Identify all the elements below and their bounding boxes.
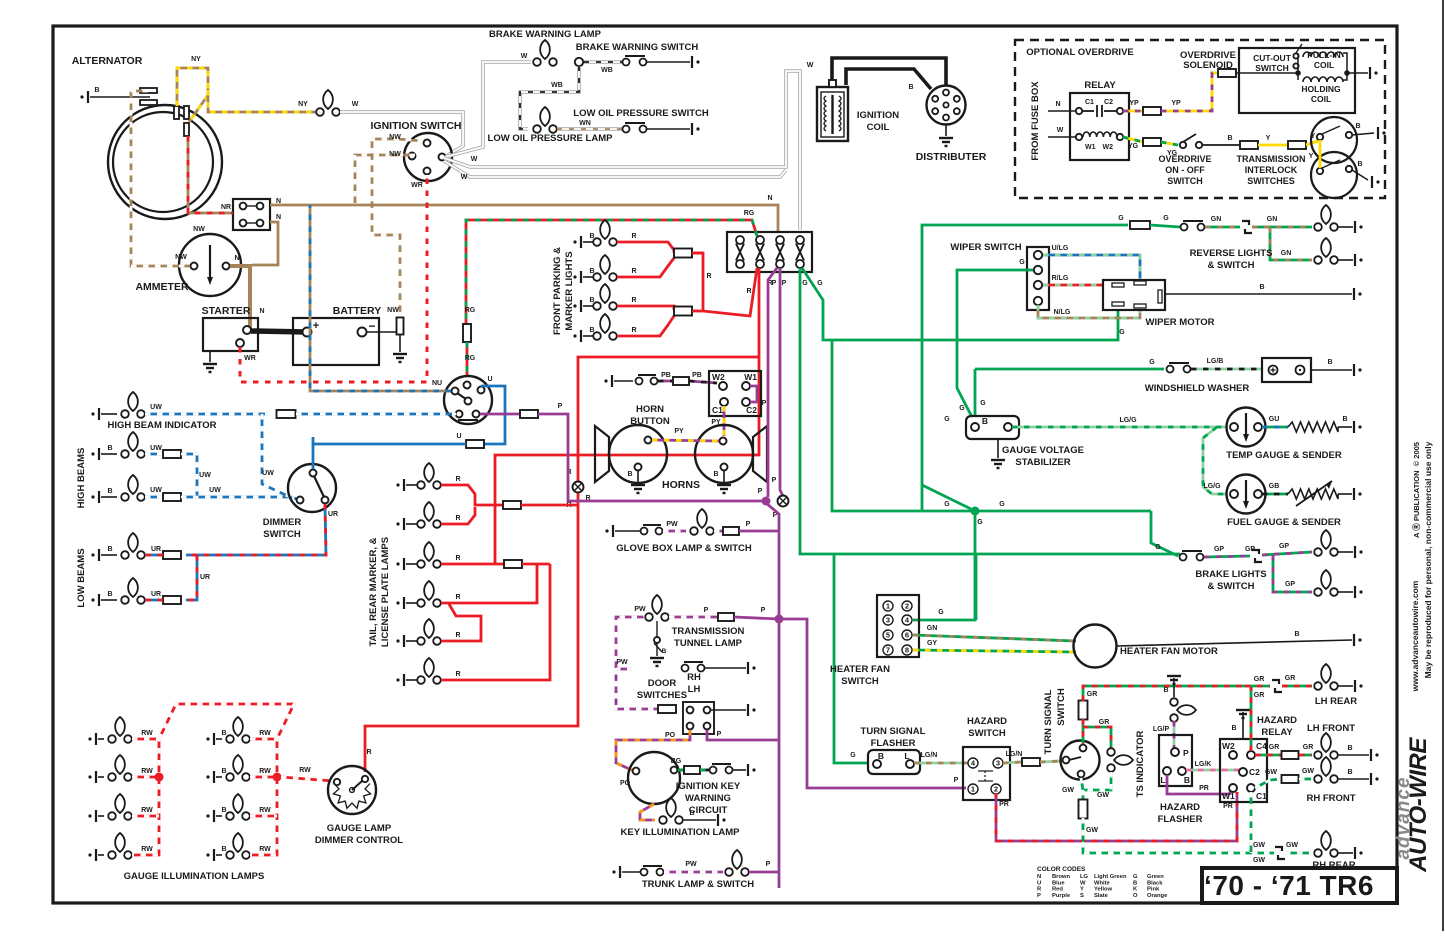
wire RW col2 stub3 <box>250 815 277 818</box>
svg-text:B: B <box>982 416 988 426</box>
svg-text:RG: RG <box>744 210 755 217</box>
wire GR fuse to lh front lamp <box>1299 754 1312 757</box>
wire GU temp gauge out <box>1262 426 1288 429</box>
wire Y connector to connector <box>1258 144 1288 147</box>
svg-text:Orange: Orange <box>1147 893 1168 899</box>
svg-text:NW: NW <box>389 134 401 141</box>
svg-text:DISTRIBUTER: DISTRIBUTER <box>916 151 987 163</box>
ground brake warning switch <box>692 56 700 68</box>
svg-text:LH REAR: LH REAR <box>1315 696 1357 707</box>
wire lh rear ground lead <box>1338 685 1353 687</box>
svg-text:NW: NW <box>389 151 401 158</box>
svg-text:UR: UR <box>328 511 338 518</box>
page right edge line <box>1442 0 1444 931</box>
svg-text:2: 2 <box>905 602 909 611</box>
switch brake warning <box>623 56 647 66</box>
lamp hazard indicator <box>1170 698 1196 722</box>
starter body <box>203 318 258 351</box>
svg-text:STABILIZER: STABILIZER <box>1015 457 1070 468</box>
lamp reverse 1 <box>1314 205 1338 231</box>
svg-text:R: R <box>631 233 636 240</box>
svg-text:CIRCUIT: CIRCUIT <box>689 805 728 816</box>
svg-text:G: G <box>999 501 1005 508</box>
svg-text:RW: RW <box>259 730 271 737</box>
wire GW relay C1 to rh front <box>1255 779 1281 788</box>
wire G to reverse lights <box>922 225 1128 511</box>
svg-text:SWITCH: SWITCH <box>968 728 1006 739</box>
wire B high beam 1 <box>101 453 117 455</box>
ground gauge lamp c2-1 <box>206 733 214 745</box>
ground high beam 1 <box>91 448 99 460</box>
svg-text:NY: NY <box>298 101 308 108</box>
wire U light switch to dimmer feed <box>481 386 505 444</box>
wire R bulkhead to front parking bus <box>692 253 757 316</box>
hazard relay box <box>1220 739 1267 802</box>
svg-text:GN: GN <box>1211 216 1222 223</box>
svg-text:Black: Black <box>1147 880 1163 886</box>
svg-text:GN: GN <box>1281 250 1292 257</box>
svg-text:TEMP GAUGE & SENDER: TEMP GAUGE & SENDER <box>1226 450 1342 461</box>
hazard relay terminal W2 <box>1229 751 1237 759</box>
svg-text:AMMETER: AMMETER <box>135 281 188 293</box>
svg-text:GW: GW <box>1286 842 1298 849</box>
svg-text:Light Green: Light Green <box>1094 874 1127 880</box>
svg-text:R: R <box>455 515 460 522</box>
ammeter body <box>179 234 241 296</box>
wire P trunk down <box>766 503 779 888</box>
svg-text:P: P <box>772 477 777 484</box>
svg-text:Slate: Slate <box>1094 893 1109 899</box>
wire hbi ground lead <box>101 413 117 415</box>
svg-text:BG: BG <box>671 758 682 765</box>
svg-text:BRAKE WARNING SWITCH: BRAKE WARNING SWITCH <box>576 42 699 53</box>
light switch base bar <box>458 419 478 421</box>
lamp low beam 2 <box>121 578 145 604</box>
svg-text:3: 3 <box>886 616 890 625</box>
lamp LH rear <box>1314 664 1338 690</box>
ground gauge lamp c2-4 <box>206 849 214 861</box>
hazard relay terminal C4 <box>1247 751 1255 759</box>
horn right body <box>695 425 753 483</box>
svg-text:U: U <box>456 433 461 440</box>
svg-text:L: L <box>1160 775 1165 785</box>
wire R trunk to tail feed <box>495 357 759 564</box>
ground tail lamp 6 <box>396 674 404 686</box>
connector lh front <box>1282 751 1299 759</box>
wire tail lamp 5 ground lead <box>406 640 421 642</box>
svg-text:PR: PR <box>1199 785 1209 792</box>
svg-text:Brown: Brown <box>1052 874 1070 880</box>
wire R tail4 <box>441 564 537 603</box>
svg-text:G: G <box>1149 359 1155 366</box>
svg-text:‘70 - ‘71 TR6: ‘70 - ‘71 TR6 <box>1204 870 1374 901</box>
wire R fp lamp4 to fuse <box>617 316 674 336</box>
svg-text:N/LG: N/LG <box>1054 309 1071 316</box>
svg-text:RG: RG <box>465 355 476 362</box>
lamp front parking 1 <box>593 220 617 246</box>
wire RW col2 stub2 <box>250 776 277 779</box>
wire R tail2 <box>441 507 475 524</box>
ground front parking lamp 2 <box>573 271 581 283</box>
lamp brake 2 <box>1314 570 1338 596</box>
lamp LH front <box>1314 733 1338 759</box>
wire U dimmer top <box>312 444 315 469</box>
wire W ignition second lead <box>444 161 786 177</box>
svg-text:N: N <box>259 308 264 315</box>
svg-text:LG/N: LG/N <box>1006 751 1023 758</box>
connector symbol on P trunk <box>778 496 789 507</box>
svg-text:C4: C4 <box>1256 741 1267 751</box>
svg-text:GAUGE VOLTAGE: GAUGE VOLTAGE <box>1002 445 1084 456</box>
wire gauge lamp c1-2 lead <box>98 776 104 778</box>
lamp tail 3 <box>417 542 441 568</box>
wiper motor contact 3 <box>1112 302 1124 306</box>
connector bracket rh rear <box>1275 847 1285 859</box>
wire gauge lamp c1-3 lead <box>98 815 104 817</box>
svg-text:LG/N: LG/N <box>921 752 938 759</box>
svg-text:SWITCHES: SWITCHES <box>1247 176 1295 186</box>
lamp gauge illumination c1-2 <box>108 755 132 781</box>
junction dot RW col2 <box>273 773 282 782</box>
lamp gauge illumination c1-1 <box>108 717 132 743</box>
relay terminal C2 <box>1117 108 1123 114</box>
connector bracket reverse <box>1242 221 1252 233</box>
ts switch terminal bottom <box>1078 771 1085 778</box>
connector high beam 2 <box>163 493 181 501</box>
wiper motor contact 4 <box>1134 304 1146 308</box>
connector on U wire <box>466 440 484 448</box>
interlock lower right contact <box>1346 166 1352 172</box>
wire GB fuel gauge out <box>1262 493 1288 496</box>
wire P to purple junction <box>538 414 762 501</box>
svg-text:GW: GW <box>1265 769 1277 776</box>
ground low beam 1 <box>91 549 99 561</box>
svg-text:R: R <box>366 749 371 756</box>
wire BG key warning out <box>678 769 684 772</box>
svg-text:OVERDRIVE: OVERDRIVE <box>1158 154 1211 164</box>
wire YP to overdrive solenoid <box>1161 73 1218 111</box>
lamp tail 6 <box>417 658 441 684</box>
svg-text:WARNING: WARNING <box>685 793 731 804</box>
svg-text:B: B <box>221 730 226 737</box>
svg-text:GR: GR <box>1303 744 1314 751</box>
wire door RH to ground <box>705 667 746 669</box>
horn left cone <box>595 426 609 482</box>
wire PR hazard flasher L to relay W1 <box>1167 775 1232 794</box>
svg-text:Y: Y <box>1309 153 1314 160</box>
svg-text:GW: GW <box>1253 842 1265 849</box>
ground gauge lamp c1-2 <box>88 771 96 783</box>
connector inline NY/W <box>316 90 340 116</box>
wire P bulkhead T3 to junction b <box>780 268 783 496</box>
ground brake lamp 1 <box>1355 546 1363 558</box>
svg-text:YG: YG <box>1128 143 1139 150</box>
svg-text:G: G <box>1118 215 1124 222</box>
wire UR lb fuse1 left <box>145 554 163 557</box>
connector tail upper <box>503 501 521 509</box>
wiper switch box <box>1027 247 1049 310</box>
fuse box terminal 4 <box>257 220 264 227</box>
svg-text:PO: PO <box>665 732 676 739</box>
transmission interlock switch lower <box>1311 152 1357 198</box>
svg-text:RW: RW <box>141 807 153 814</box>
svg-text:TRUNK LAMP & SWITCH: TRUNK LAMP & SWITCH <box>642 879 754 890</box>
wire LG/N flasher to hazard switch <box>914 762 968 765</box>
svg-text:G: G <box>850 752 856 759</box>
svg-text:P: P <box>1037 893 1041 899</box>
svg-text:PB: PB <box>692 372 702 379</box>
hazard switch terminal 3 <box>993 758 1003 768</box>
lamp gauge illumination c2-4 <box>226 833 250 859</box>
svg-text:A Ⓡ PUBLICATION © 2005: A Ⓡ PUBLICATION © 2005 <box>1411 442 1421 538</box>
connector on YP <box>1143 107 1161 115</box>
svg-text:LG/K: LG/K <box>1195 761 1212 768</box>
ground high beam indicator <box>91 408 99 420</box>
wire NU light switch feed <box>310 205 451 391</box>
wire GR lh rear run <box>1245 685 1270 688</box>
ground tail lamp 3 <box>396 558 404 570</box>
svg-text:LH: LH <box>688 684 701 695</box>
wire GW relay down to rh rear <box>1250 792 1253 853</box>
lamp brake 1 <box>1314 530 1338 556</box>
washer motor plus terminal <box>1269 366 1278 375</box>
switch transmission lamp <box>654 637 660 643</box>
lamp high beam indicator <box>121 392 145 418</box>
dimmer terminal top <box>310 470 317 477</box>
svg-text:& SWITCH: & SWITCH <box>1208 260 1255 271</box>
wire B low beam 2 <box>101 599 117 601</box>
svg-text:RH FRONT: RH FRONT <box>1306 793 1355 804</box>
connector node brake warning <box>575 58 583 66</box>
cut-out switch contact b <box>1293 63 1298 68</box>
svg-text:6: 6 <box>905 631 909 640</box>
wire LG/G stabilizer to temp gauge <box>1012 426 1226 429</box>
lamp low oil pressure <box>533 107 557 133</box>
alternator brush 1 <box>174 106 179 119</box>
svg-text:UR: UR <box>151 546 161 553</box>
temp gauge needle <box>1243 413 1249 442</box>
lamp front parking 4 <box>593 314 617 340</box>
svg-text:FLASHER: FLASHER <box>871 738 916 749</box>
wire gauge lamp c2-4 lead <box>216 854 222 856</box>
svg-text:GR: GR <box>1254 692 1265 699</box>
svg-text:SWITCH: SWITCH <box>841 676 879 687</box>
relay terminal C1 <box>1076 108 1082 114</box>
wire B low beam 1 <box>101 554 117 556</box>
lamp gauge illumination c2-1 <box>226 717 250 743</box>
wire LG/G branch to fuel gauge <box>1203 427 1226 494</box>
hazard switch terminal 1 <box>968 784 978 794</box>
wire G junction diag <box>922 485 971 509</box>
wire Y to interlock switch <box>1306 141 1318 145</box>
lamp tail 1 <box>417 463 441 489</box>
svg-text:B: B <box>713 471 718 478</box>
wire tail lamp 6 ground lead <box>406 679 421 681</box>
alternator brush 3 <box>184 123 189 136</box>
dimmer terminal left <box>297 497 304 504</box>
optional overdrive dashed box <box>1015 40 1385 198</box>
interlock upper right contact <box>1346 132 1352 138</box>
hazard flasher terminal P <box>1171 748 1179 756</box>
svg-text:NU: NU <box>432 380 442 387</box>
door switch LH box <box>683 702 714 734</box>
lamp TS indicator <box>1107 748 1133 772</box>
svg-text:& SWITCH: & SWITCH <box>1208 581 1255 592</box>
wire GW fuse to rh front lamp <box>1299 778 1312 781</box>
svg-text:WB: WB <box>551 82 563 89</box>
svg-text:WR: WR <box>244 355 256 362</box>
connector on YG <box>1143 138 1161 146</box>
color codes legend table <box>1037 874 1168 899</box>
ground alternator B <box>80 91 88 103</box>
ground gauge lamp c2-3 <box>206 810 214 822</box>
svg-text:RH: RH <box>687 672 701 683</box>
pull-in coil node a <box>1295 70 1301 76</box>
svg-text:UW: UW <box>150 487 162 494</box>
connector front parking lower <box>674 307 692 316</box>
wire fuel sender to ground <box>1338 493 1352 495</box>
fuel gauge terminal right <box>1254 490 1262 498</box>
svg-text:5: 5 <box>886 631 890 640</box>
wire R tail1 <box>441 485 503 505</box>
svg-text:Y: Y <box>1080 887 1084 893</box>
wiper motor contact 2 <box>1134 281 1146 285</box>
ground trunk lamp switch <box>612 866 620 878</box>
wire rh rear ground lead <box>1338 852 1353 854</box>
svg-text:LG/B: LG/B <box>1207 358 1224 365</box>
ignition coil center bar <box>831 95 833 134</box>
wire W ignition to bulkhead connector <box>444 71 800 230</box>
cut-out switch contact a <box>1293 53 1298 58</box>
svg-text:OPTIONAL OVERDRIVE: OPTIONAL OVERDRIVE <box>1026 47 1134 58</box>
svg-text:ALTERNATOR: ALTERNATOR <box>72 55 143 67</box>
svg-text:Purple: Purple <box>1052 893 1071 899</box>
hazard relay terminal C1 <box>1247 784 1255 792</box>
svg-text:W1: W1 <box>1222 791 1235 801</box>
wire PO key warning to lamp <box>640 804 655 820</box>
door LH terminal c <box>687 723 694 730</box>
connector high beam 1 <box>163 450 181 458</box>
wire reverse lamp2 ground lead <box>1338 259 1353 261</box>
wire B od switch to connector <box>1202 144 1240 146</box>
svg-text:RW: RW <box>259 768 271 775</box>
svg-text:P: P <box>782 280 787 287</box>
lamp glove box <box>690 509 714 535</box>
svg-text:HIGH BEAMS: HIGH BEAMS <box>76 448 87 509</box>
connector reverse G <box>1130 221 1150 229</box>
wire W into relay W1 <box>1048 136 1075 138</box>
switch key warning <box>710 764 733 774</box>
svg-text:NW: NW <box>193 226 205 233</box>
svg-text:UR: UR <box>151 591 161 598</box>
ground stabilizer <box>991 460 1005 468</box>
svg-text:COIL: COIL <box>867 122 890 133</box>
wire G bulkhead T4 down to y554 <box>800 268 1180 554</box>
svg-text:U: U <box>1037 880 1041 886</box>
wire stabilizer ground stem <box>997 439 999 458</box>
wire GW indicator down <box>1083 772 1111 790</box>
wiper motor box <box>1103 280 1165 310</box>
svg-text:B: B <box>662 648 667 655</box>
ground horn left <box>631 485 645 493</box>
fuse element 1 <box>246 205 257 207</box>
fuse box <box>233 199 270 230</box>
wire B interlock lower <box>1352 170 1368 180</box>
svg-text:SWITCH: SWITCH <box>1167 176 1203 186</box>
lamp tail 2 <box>417 502 441 528</box>
light switch terminal ur <box>478 387 485 394</box>
svg-text:PR: PR <box>999 801 1009 808</box>
svg-text:GW: GW <box>1097 792 1109 799</box>
connector on PB <box>673 377 689 385</box>
ground horn right <box>717 485 731 493</box>
svg-text:KEY ILLUMINATION LAMP: KEY ILLUMINATION LAMP <box>621 827 741 838</box>
wire temp sender to ground <box>1338 426 1352 428</box>
svg-text:W1: W1 <box>1085 144 1096 151</box>
svg-text:P: P <box>766 861 771 868</box>
heater fan motor body <box>1074 625 1117 668</box>
wire UW hbi to light switch <box>145 413 270 416</box>
horn button terminal C1 <box>720 398 728 406</box>
ground interlock lower <box>1372 176 1380 188</box>
wire RW col1 bus <box>132 739 159 855</box>
gauge dimmer wiper <box>352 781 362 790</box>
wire PW trunk switch to lamp <box>664 871 723 874</box>
relay terminal W2 <box>1117 134 1123 140</box>
wiper motor contact 1 <box>1112 283 1124 287</box>
light switch terminal br <box>473 411 480 418</box>
wire glove box ground lead <box>615 530 640 532</box>
svg-text:LG/P: LG/P <box>1153 726 1170 733</box>
hazard flasher terminal L <box>1163 767 1171 775</box>
svg-text:GAUGE ILLUMINATION LAMPS: GAUGE ILLUMINATION LAMPS <box>124 871 265 882</box>
svg-text:GW: GW <box>1302 768 1314 775</box>
connector symbol on R trunk <box>573 482 584 493</box>
wire starter ground lead <box>209 351 211 362</box>
svg-text:B: B <box>689 810 694 817</box>
fuel sender resistor <box>1288 489 1338 499</box>
bulkhead connector terminal 3 <box>776 236 784 268</box>
svg-text:C1: C1 <box>1085 99 1094 106</box>
heater switch terminal 7 <box>883 645 893 655</box>
heater fan switch box <box>877 595 919 657</box>
key warning terminal left <box>633 768 640 775</box>
dimmer switch body <box>288 464 336 512</box>
wire RG fuse to light switch <box>466 342 469 377</box>
svg-text:TRANSMISSION: TRANSMISSION <box>672 626 745 637</box>
svg-text:B: B <box>107 591 112 598</box>
svg-text:IGNITION KEY: IGNITION KEY <box>676 781 741 792</box>
hazard switch terminal 2 <box>991 784 1001 794</box>
wire B wiper motor <box>1165 293 1352 295</box>
svg-text:White: White <box>1094 880 1111 886</box>
svg-text:N: N <box>1037 874 1041 880</box>
wire G turn signal flasher feed <box>834 554 869 763</box>
wire HT coil to distributer <box>832 58 946 103</box>
switch windshield washer <box>1167 363 1191 373</box>
svg-text:GP: GP <box>1214 546 1224 553</box>
bulkhead connector terminal 1 <box>736 236 744 268</box>
svg-text:B: B <box>107 445 112 452</box>
wire R/LG wiper <box>1043 284 1112 287</box>
ground distributer <box>939 138 953 146</box>
svg-text:PY: PY <box>674 428 684 435</box>
hazard flasher terminal B <box>1178 767 1186 775</box>
wire GR branch to indicator <box>1083 727 1111 748</box>
svg-text:P: P <box>558 403 563 410</box>
svg-text:B: B <box>627 471 632 478</box>
distributer body <box>927 86 966 125</box>
